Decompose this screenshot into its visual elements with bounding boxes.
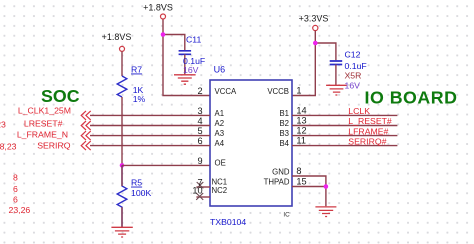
wire net L_CLK1_25M to pin 3 [90, 114, 210, 116]
net label SERIRQ# [348, 137, 386, 147]
svg-text:R7: R7 [131, 65, 142, 75]
wire net L_FRAME_N to pin 5 [90, 135, 210, 137]
pin name A1 [215, 109, 225, 118]
label C12 X5R [345, 71, 362, 81]
no-connect X pin 7 [197, 182, 204, 188]
page ref 8,23 [0, 141, 17, 151]
page ref 8 [13, 172, 18, 182]
pin 7 NC1 stub [196, 186, 210, 188]
off-page connector chevron SERIRQ [81, 141, 91, 150]
no-connect X pin 10 [196, 193, 203, 200]
pin name A4 [215, 139, 225, 148]
svg-text:A2: A2 [215, 119, 225, 128]
wire branch to C12 [315, 43, 336, 60]
pin number 4 [197, 116, 202, 126]
wire net LFRAME# from pin 12 [292, 135, 397, 137]
capacitor C12 plates [330, 61, 343, 85]
svg-text:8,23: 8,23 [0, 141, 17, 151]
wire branch to C11 [163, 35, 185, 51]
wire OE junction to pin 9 [122, 164, 210, 166]
pin number 13 [296, 116, 306, 126]
section label SOC [41, 86, 80, 106]
power symbol +3.3VS [313, 25, 318, 30]
svg-text:VCCB: VCCB [267, 87, 289, 96]
svg-text:15: 15 [296, 177, 306, 187]
label C11 16V [183, 65, 199, 75]
svg-text:THPAD: THPAD [264, 177, 290, 186]
svg-text:A3: A3 [215, 129, 225, 138]
svg-text:1%: 1% [133, 94, 146, 104]
pin number 6 [197, 136, 202, 146]
net label L_RESET# [348, 116, 392, 126]
ground below C11 [174, 75, 196, 84]
capacitor C11 plates [179, 51, 192, 75]
label IC [283, 212, 290, 219]
wire +3.3VS rail to VCCB pin 1 [292, 31, 315, 96]
pin number 12 [296, 126, 306, 136]
svg-text:B1: B1 [279, 109, 289, 118]
pin number 3 [197, 106, 202, 116]
power symbol +1.8VS (U6 VCCA rail) [161, 14, 166, 19]
resistor R7 [117, 76, 127, 97]
pin number 14 [296, 105, 306, 115]
svg-text:12: 12 [296, 126, 306, 136]
wire net LCLK from pin 14 [292, 114, 397, 116]
pin name B1 [279, 109, 289, 118]
wire power circle to R7 top [121, 51, 123, 76]
wire net L_RESET# from pin 13 [292, 125, 397, 127]
svg-text:VCCA: VCCA [215, 87, 237, 96]
svg-text:B2: B2 [279, 119, 289, 128]
pin name NC1 [212, 177, 228, 186]
power symbol +1.8VS (R7 pull-up) [120, 46, 125, 51]
svg-text:5: 5 [197, 126, 202, 136]
svg-text:IO BOARD: IO BOARD [365, 88, 458, 108]
svg-text:+1.8VS: +1.8VS [143, 3, 173, 13]
svg-text:NC2: NC2 [212, 186, 228, 195]
pin name GND [272, 167, 290, 176]
label +1.8VS (R7 rail) [102, 32, 132, 42]
svg-text:10: 10 [192, 186, 202, 196]
svg-text:8: 8 [296, 166, 301, 176]
page ref 6 [13, 184, 18, 194]
pin name NC2 [212, 186, 228, 195]
svg-text:4: 4 [197, 116, 202, 126]
pin name VCCA [215, 87, 237, 96]
svg-text:GND: GND [272, 167, 290, 176]
svg-text:SERIRQ: SERIRQ [37, 140, 71, 150]
svg-text:OE: OE [215, 159, 226, 168]
svg-text:+3.3VS: +3.3VS [299, 13, 329, 23]
label +1.8VS (C11 rail) [143, 3, 173, 13]
pin name THPAD [264, 177, 290, 186]
svg-text:LFRAME#: LFRAME# [348, 126, 388, 136]
svg-text:LRESET#: LRESET# [24, 119, 63, 129]
net label L_FRAME_N [17, 129, 68, 139]
svg-text:8: 8 [13, 172, 18, 182]
section label IO BOARD [365, 88, 458, 108]
svg-text:SERIRQ#: SERIRQ# [348, 137, 386, 147]
label TXB0104 [210, 217, 246, 227]
svg-text:23,26: 23,26 [9, 205, 31, 215]
label U6 [214, 64, 226, 74]
wire +1.8VS rail to C11/VCCA: vertical from power circle to pin2 corner [163, 19, 210, 96]
label +3.3VS [299, 13, 329, 23]
svg-text:B3: B3 [279, 129, 289, 138]
svg-text:A4: A4 [215, 139, 225, 148]
pin number 10 [192, 186, 202, 196]
pin 10 NC2 stub [196, 196, 210, 198]
svg-text:U6: U6 [214, 64, 226, 74]
svg-text:SOC: SOC [41, 86, 80, 106]
net label LFRAME# [348, 126, 388, 136]
svg-text:16V: 16V [183, 65, 199, 75]
svg-text:+1.8VS: +1.8VS [102, 32, 132, 42]
wire GND pin 8 to ground [292, 176, 326, 187]
label R5 100K [131, 178, 151, 198]
pin number 8 [296, 166, 301, 176]
resistor R5 [117, 165, 127, 227]
svg-text:8,23: 8,23 [0, 119, 6, 129]
net label L_CLK1_25M [18, 106, 71, 116]
svg-text:2: 2 [197, 86, 202, 96]
svg-text:A1: A1 [215, 109, 225, 118]
pin name A2 [215, 119, 225, 128]
wire R7 bottom to OE junction [121, 97, 123, 165]
pin number 7 [197, 177, 202, 187]
svg-text:6: 6 [13, 184, 18, 194]
pin name B3 [279, 129, 289, 138]
svg-text:X5R: X5R [345, 71, 362, 81]
pin number 5 [197, 126, 202, 136]
pin number 2 [197, 86, 202, 96]
label C12 16V [345, 81, 361, 91]
svg-text:R5: R5 [131, 178, 142, 188]
svg-text:C12: C12 [345, 50, 361, 60]
svg-text:14: 14 [296, 105, 306, 115]
node junction at +3.3VS/C12 branch [313, 41, 318, 46]
pin name B2 [279, 119, 289, 128]
net label LCLK [348, 106, 370, 116]
svg-text:3: 3 [197, 106, 202, 116]
svg-text:100K: 100K [131, 188, 151, 198]
svg-text:IC: IC [283, 212, 290, 219]
wire net LRESET# to pin 4 [90, 125, 210, 127]
svg-text:L_RESET#: L_RESET# [348, 116, 392, 126]
svg-text:1: 1 [296, 86, 301, 96]
pin name A3 [215, 129, 225, 138]
svg-text:B4: B4 [279, 139, 289, 148]
svg-text:6: 6 [197, 136, 202, 146]
IC U6 body TXB0104 [210, 80, 292, 206]
ground below C12 [326, 85, 347, 95]
svg-text:13: 13 [296, 116, 306, 126]
svg-text:L_CLK1_25M: L_CLK1_25M [18, 106, 71, 116]
off-page connector chevron L_FRAME_N [81, 131, 91, 140]
pin name B4 [279, 139, 289, 148]
node junction OE / R7 / R5 [120, 163, 125, 168]
label C11 [183, 34, 205, 66]
pin number 15 [296, 177, 306, 187]
svg-text:6: 6 [13, 195, 18, 205]
pin name OE [215, 159, 226, 168]
wire THPAD pin 15 to ground [292, 187, 326, 207]
wire net SERIRQ# from pin 11 [292, 145, 397, 147]
node junction GND/THPAD [324, 184, 329, 189]
svg-text:L_FRAME_N: L_FRAME_N [17, 129, 68, 139]
net label LRESET# [24, 119, 63, 129]
wire net SERIRQ to pin 6 [90, 145, 210, 147]
label C12 value block [345, 50, 367, 71]
pin name VCCB [267, 87, 289, 96]
ground below R5 [111, 227, 132, 237]
svg-text:0.1uF: 0.1uF [345, 61, 367, 71]
page ref 6 (second) [13, 195, 18, 205]
page ref 23,26 [9, 205, 31, 215]
net label SERIRQ [37, 140, 71, 150]
node junction at +1.8VS/C11 branch [161, 32, 166, 37]
pin number 9 [197, 156, 202, 166]
svg-text:C11: C11 [186, 34, 201, 44]
svg-text:9: 9 [197, 156, 202, 166]
svg-text:11: 11 [296, 136, 306, 146]
pin number 11 [296, 136, 306, 146]
pin number 1 [296, 86, 301, 96]
page ref 23 (clipped) [0, 119, 6, 129]
svg-text:TXB0104: TXB0104 [210, 217, 246, 227]
off-page connector chevron L_CLK1_25M [81, 111, 91, 120]
svg-text:16V: 16V [345, 81, 361, 91]
label R7 1K 1% [131, 65, 146, 105]
ground below THPAD [315, 207, 336, 217]
off-page connector chevron LRESET# [81, 121, 91, 130]
